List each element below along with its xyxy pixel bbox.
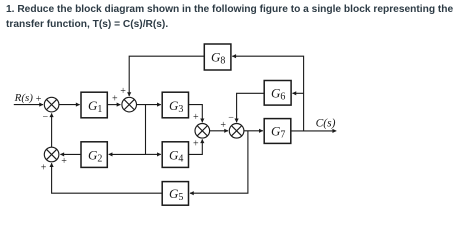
wire J3 to J4 (210, 130, 229, 132)
svg-text:+: + (193, 139, 199, 150)
block G7 (264, 119, 291, 144)
wire G2 to junction C (60, 153, 81, 155)
svg-text:+: + (120, 86, 126, 97)
wire junction A to G1 (59, 104, 80, 106)
wire branch to G6 (293, 92, 304, 94)
wire G4 up to junction J3 (189, 139, 203, 154)
wire junction C up to junction A (51, 113, 53, 147)
svg-text:C(s): C(s) (316, 118, 336, 130)
svg-text:+: + (41, 162, 47, 173)
svg-text:+: + (112, 94, 118, 105)
summing junction J3 (195, 124, 210, 139)
wire G6 to junction J4 (237, 93, 265, 122)
svg-text:+: + (36, 94, 42, 105)
block G1 (81, 92, 107, 118)
wire G7 output C(s) (291, 130, 336, 132)
summing junction C (44, 147, 59, 162)
svg-text:+: + (193, 112, 199, 123)
wire J4 to G7 (244, 130, 263, 132)
wire G5 to junction C (52, 163, 163, 193)
wire R(s) input (14, 104, 43, 106)
wire to G4 (146, 153, 161, 155)
summing junction J4 (229, 124, 244, 139)
summing junction A (44, 97, 59, 112)
wire tap down to G5 (190, 131, 248, 193)
wire tap up from output (232, 56, 303, 131)
svg-text:−: − (228, 112, 234, 123)
block G8 (204, 44, 231, 70)
svg-text:−: − (43, 112, 49, 123)
svg-text:R(s): R(s) (14, 92, 34, 104)
block G4 (162, 142, 188, 168)
block G5 (162, 182, 188, 206)
wire branch down from node after B (145, 105, 147, 155)
block G6 (264, 81, 291, 106)
wire G8 to junction B (129, 56, 204, 96)
wire to G2 (109, 153, 146, 155)
wire G1 to junction B (107, 104, 120, 106)
svg-text:+: + (220, 120, 226, 131)
svg-text:+: + (61, 156, 67, 167)
wire junction B to G3 (136, 104, 161, 106)
block G3 (162, 92, 188, 118)
block G2 (81, 142, 107, 168)
summing junction B (122, 97, 137, 112)
wire G3 to junction J3 (189, 105, 203, 123)
